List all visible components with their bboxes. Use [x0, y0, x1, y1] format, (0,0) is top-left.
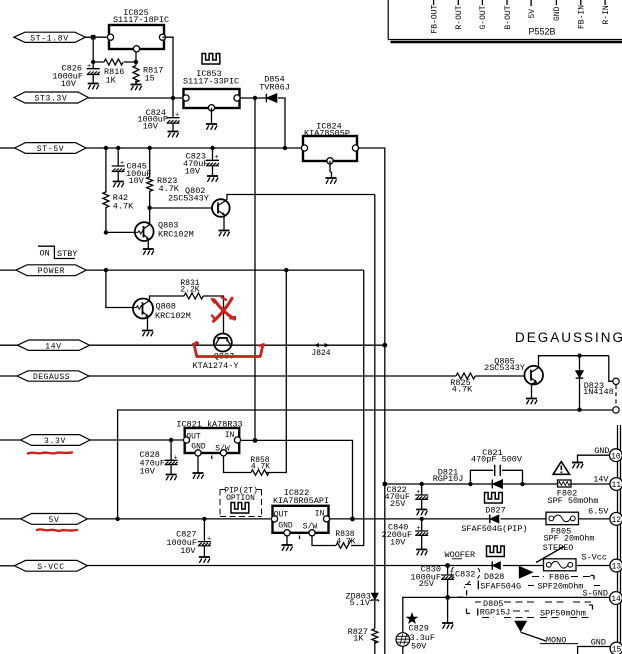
svg-text:1K: 1K: [106, 75, 117, 85]
svg-text:D828: D828: [484, 572, 504, 582]
svg-text:15: 15: [612, 646, 622, 654]
ground below C840: [416, 550, 427, 556]
svg-text:+: +: [215, 154, 219, 162]
capacitor C823: [183, 148, 219, 176]
wire vertical v4 from Q802 collector down: [374, 195, 376, 654]
wire S-VCC / WOOFER net: [87, 565, 492, 567]
connector pin 10: [610, 449, 622, 462]
svg-text:SFAF504G: SFAF504G: [480, 581, 521, 591]
connector pin 15: [610, 642, 622, 654]
svg-text:KIA78S05P: KIA78S05P: [304, 128, 350, 138]
capacitor C821 bypass branch: [470, 448, 522, 484]
svg-text:ST3.3V: ST3.3V: [34, 95, 67, 104]
svg-text:STEREO: STEREO: [543, 543, 574, 553]
ground below R817: [135, 81, 137, 85]
wire Q808 emitter to ground: [148, 317, 149, 330]
transistor Q802: [168, 186, 230, 217]
ground below C830: [447, 597, 449, 622]
wire pin15 GND: [578, 647, 611, 654]
wire D827 to F805: [501, 518, 547, 520]
heatsink symbol above IC853: [202, 54, 220, 65]
svg-text:4.7K: 4.7K: [452, 385, 473, 395]
svg-text:KRC102M: KRC102M: [155, 311, 191, 321]
svg-text:6.5V: 6.5V: [588, 507, 609, 517]
connector P552B pin B-OUT: [504, 0, 513, 30]
fuse F802: [547, 480, 598, 506]
connector P552B pin FB-IN: [578, 0, 587, 29]
svg-text:SFAF504G(PIP): SFAF504G(PIP): [461, 524, 527, 534]
svg-text:3.3V: 3.3V: [44, 437, 66, 446]
wire D854 to IC824 input riser: [278, 98, 285, 148]
capacitor C822: [385, 484, 429, 509]
wire collector to degauss pin1: [609, 356, 613, 382]
svg-text:14: 14: [611, 595, 621, 604]
wire ST-1.8V net: [85, 36, 109, 38]
svg-text:KTA1274-Y: KTA1274-Y: [193, 361, 239, 371]
wire S-GND net: [403, 597, 610, 654]
svg-text:ON: ON: [40, 249, 50, 259]
heatsink symbol above D827: [485, 493, 503, 504]
svg-text:OUT: OUT: [274, 510, 289, 519]
connector P552B box: [388, 0, 622, 42]
connector P552B pin GND: [553, 0, 562, 21]
resistor R827: [348, 627, 378, 644]
svg-text:G-OUT: G-OUT: [479, 5, 488, 29]
svg-text:5V: 5V: [48, 516, 59, 525]
annotation C832: [451, 567, 480, 597]
diode D827: [485, 506, 505, 524]
wire ST-5V net: [86, 147, 303, 149]
svg-text:S/W: S/W: [215, 444, 230, 453]
wire R825 to Q805 base: [475, 375, 525, 377]
connector P552B pin FB-OUT: [430, 0, 439, 34]
connector pin 14: [610, 592, 622, 605]
ground below IC824: [330, 161, 332, 178]
svg-text:S/W: S/W: [303, 522, 318, 531]
warning triangle: [553, 462, 569, 475]
op-amp U IC821 regulator: [176, 419, 242, 459]
wire F806 to pin13: [576, 565, 610, 567]
svg-text:10V: 10V: [185, 166, 201, 176]
capacitor C827: [166, 519, 211, 557]
svg-text:12: 12: [611, 516, 621, 525]
ground below C823: [207, 176, 218, 182]
svg-text:4.7K: 4.7K: [159, 184, 180, 194]
svg-text:P552B: P552B: [528, 27, 555, 37]
svg-text:S-Vcc: S-Vcc: [581, 553, 607, 563]
jumper J824: [311, 343, 330, 358]
svg-text:IN: IN: [225, 431, 235, 440]
svg-text:15: 15: [145, 74, 155, 84]
wire node to R816/C826: [93, 37, 136, 65]
connector P552B pin R-IN: [602, 0, 611, 25]
wire 14V secondary line (D821 net): [385, 483, 612, 485]
red annotation X over Q807 drive: [212, 297, 235, 321]
wire 3.3V net to IC821 OUT: [90, 439, 186, 441]
label ON/STBY: [38, 246, 77, 259]
ground below IC822 GND pin: [286, 536, 288, 545]
svg-text:4.7K: 4.7K: [251, 462, 270, 471]
capacitor C824: [137, 98, 179, 132]
resistor R816: [104, 59, 124, 85]
node 14V flag: [0, 340, 90, 351]
degauss connector dashed body: [615, 385, 617, 406]
svg-text:25V: 25V: [419, 579, 435, 589]
svg-text:DEGAUSS: DEGAUSS: [33, 373, 70, 382]
ground below C827: [199, 557, 210, 563]
svg-text:TVR06J: TVR06J: [259, 82, 290, 92]
transistor Q803: [135, 221, 194, 241]
svg-text:GND: GND: [278, 522, 293, 531]
wire 14V net: [90, 344, 385, 346]
svg-text:13: 13: [611, 563, 621, 572]
svg-text:10V: 10V: [390, 538, 406, 548]
svg-text:14V: 14V: [45, 342, 62, 351]
degauss connector pin top: [613, 378, 619, 384]
svg-text:470pF 500V: 470pF 500V: [471, 455, 523, 465]
svg-text:+: +: [417, 489, 421, 497]
node 3.3V flag: [0, 435, 90, 447]
svg-text:2SC5343Y: 2SC5343Y: [484, 363, 525, 373]
svg-text:R-OUT: R-OUT: [455, 5, 464, 29]
ground below C824: [168, 132, 179, 138]
resistor R817: [133, 66, 163, 84]
wire R831 to Q807 base: [203, 296, 223, 334]
svg-text:D827: D827: [485, 506, 505, 516]
node 5V flag: [0, 514, 87, 526]
wire 5V net: [87, 518, 275, 520]
svg-text:S1117-18PIC: S1117-18PIC: [113, 15, 169, 25]
svg-text:J824: J824: [311, 349, 330, 358]
ground below C845: [113, 182, 124, 188]
svg-text:IC821 kA78R33: IC821 kA78R33: [176, 419, 242, 429]
connector P552B pin 5V: [528, 0, 537, 19]
svg-text:1N4148: 1N4148: [583, 387, 614, 397]
wire vertical v1 D854 to IC821 IN: [254, 98, 256, 440]
svg-text:+: +: [120, 160, 124, 168]
svg-text:C832: C832: [455, 570, 475, 580]
wire Q802 base: [150, 207, 213, 209]
svg-text:GND: GND: [191, 443, 206, 452]
svg-text:10V: 10V: [143, 122, 159, 132]
degauss connector pin bottom: [613, 407, 619, 413]
svg-text:25V: 25V: [390, 499, 406, 509]
ground below C822: [416, 510, 427, 516]
svg-text:POWER: POWER: [38, 267, 66, 276]
ground below IC821 GND pin: [197, 456, 199, 473]
svg-text:+: +: [175, 112, 179, 120]
resistor R42: [103, 148, 134, 232]
svg-text:11: 11: [611, 481, 621, 490]
op-amp U IC822 regulator: [271, 488, 329, 539]
svg-text:GND: GND: [594, 446, 609, 456]
svg-text:+: +: [174, 454, 178, 462]
svg-text:14V: 14V: [593, 474, 609, 484]
PIP(2T) OPTION dashed box: [220, 486, 262, 516]
svg-text:10V: 10V: [129, 176, 145, 186]
diode D821: [433, 467, 503, 488]
svg-text:10V: 10V: [61, 79, 77, 89]
wire ST3.3V net: [88, 97, 183, 99]
resistor R838: [335, 530, 355, 548]
svg-text:1K: 1K: [353, 634, 364, 644]
wire D828 to F806: [503, 565, 544, 567]
svg-text:SPF 20mOhm: SPF 20mOhm: [543, 534, 594, 544]
svg-text:OPTION: OPTION: [226, 494, 255, 503]
wire Q802 collector to vertical: [226, 195, 375, 201]
wire vertical v3 POWER to R838: [351, 270, 364, 545]
red annotation underline 5V: [37, 529, 77, 531]
wire Q805 collector: [538, 356, 609, 368]
svg-text:2SC5343Y: 2SC5343Y: [168, 194, 209, 204]
wire IC822 S/W to R838: [312, 536, 336, 546]
capacitor C845: [112, 148, 152, 186]
ground below IC853: [211, 108, 213, 124]
fuse F805: [543, 512, 594, 543]
wire IC822 IN to 5V line right: [329, 518, 490, 520]
connector P552B pin R-OUT: [455, 0, 464, 30]
svg-text:OUT: OUT: [186, 433, 201, 442]
svg-text:4.7K: 4.7K: [336, 537, 355, 546]
svg-text:4.7K: 4.7K: [113, 202, 134, 212]
svg-text:IN: IN: [315, 510, 325, 519]
wire IC825 pin3 to ST3.3V: [163, 37, 174, 98]
node ST-5V flag: [0, 143, 86, 155]
red annotation bracket under Q807: [193, 343, 264, 357]
op-amp U IC824 regulator: [301, 122, 358, 164]
wire Q802 emitter to ground: [224, 215, 225, 230]
transistor Q807: [193, 334, 239, 372]
diode D854: [259, 75, 290, 103]
transistor Q808: [133, 299, 191, 322]
svg-text:+: +: [87, 63, 91, 71]
dashed annotation D805 RGP15J SPF50mOhm: [467, 599, 593, 619]
wire Q805 emitter to ground: [532, 382, 537, 398]
wire pin10 GND: [578, 455, 611, 462]
wire Q808 collector to R831: [149, 296, 184, 301]
arrow to STEREO: [519, 543, 574, 579]
svg-text:50V: 50V: [411, 642, 427, 652]
capacitor C840: [382, 519, 429, 549]
svg-text:ST-1.8V: ST-1.8V: [30, 34, 69, 43]
svg-text:DEGAUSSING: DEGAUSSING: [515, 330, 622, 345]
svg-text:2.2K: 2.2K: [180, 285, 199, 294]
svg-text:10: 10: [611, 452, 621, 461]
wire IC821 S/W to R858: [224, 456, 252, 473]
svg-text:R-IN: R-IN: [602, 5, 611, 24]
connector P552B pin G-OUT: [479, 0, 488, 30]
svg-text:5.1V: 5.1V: [350, 598, 371, 608]
svg-text:GND: GND: [553, 6, 562, 21]
fuse F806: [544, 559, 577, 571]
resistor R858: [250, 456, 270, 475]
diode D823: [576, 356, 614, 410]
wire IC821 IN net: [240, 440, 353, 519]
wire Q803 emitter to ground: [147, 240, 150, 249]
capacitor C826: [52, 62, 99, 89]
transistor Q805: [484, 356, 543, 384]
junction dots ST-1.8V area: [91, 35, 96, 40]
op-amp U IC853 regulator: [183, 69, 240, 111]
svg-text:B-OUT: B-OUT: [504, 5, 513, 29]
svg-text:STBY: STBY: [57, 249, 77, 259]
svg-text:RGP15J: RGP15J: [480, 607, 511, 617]
wire Q803 collector: [149, 208, 151, 225]
svg-text:+: +: [417, 525, 421, 533]
svg-text:KRC102M: KRC102M: [158, 230, 194, 240]
op-amp U IC825 regulator: [107, 8, 169, 52]
node DEGAUSS flag: [0, 371, 89, 382]
wire DEGAUSS net: [89, 375, 456, 377]
ground below C828: [166, 475, 177, 481]
svg-text:10V: 10V: [140, 467, 156, 477]
svg-text:GND: GND: [591, 637, 606, 647]
wire vertical v2 POWER to R858: [266, 270, 286, 472]
dashed annotation SFAF504G: [465, 581, 601, 592]
dashed annotation F806 SPF20mOhm: [532, 573, 594, 592]
svg-text:+: +: [207, 536, 211, 544]
connector pin 13: [610, 559, 622, 572]
red annotation underline 3.3V: [28, 453, 72, 454]
svg-text:KIA78R05API: KIA78R05API: [273, 496, 329, 506]
wire GND return line y410: [118, 410, 613, 519]
svg-text:FB-IN: FB-IN: [578, 5, 587, 29]
svg-text:ST-5V: ST-5V: [37, 145, 65, 154]
svg-text:10V: 10V: [180, 546, 196, 556]
wire POWER to Q808 base: [106, 270, 133, 307]
svg-text:FB-OUT: FB-OUT: [430, 4, 439, 33]
svg-text:RGP10J: RGP10J: [433, 474, 464, 484]
svg-text:SPF 50mOhm: SPF 50mOhm: [547, 496, 598, 506]
svg-text:S-GND: S-GND: [582, 588, 608, 598]
svg-text:SPF20mOhm: SPF20mOhm: [538, 581, 584, 591]
connector pin 11: [610, 478, 622, 491]
connector bar right edge: [618, 425, 621, 654]
connector pin 12: [610, 513, 622, 526]
arrow to MONO: [514, 621, 578, 646]
resistor R823: [147, 148, 180, 208]
capacitor C828: [140, 440, 178, 477]
svg-text:S1117-33PIC: S1117-33PIC: [183, 77, 239, 87]
zener diode ZD803: [345, 591, 379, 608]
heatsink symbol above D828: [487, 546, 505, 557]
diode D828: [484, 561, 504, 582]
resistor R831: [180, 279, 203, 299]
svg-text:SPF50mOhm: SPF50mOhm: [540, 608, 586, 618]
capacitor C829: [396, 614, 435, 652]
ground below C826: [88, 84, 99, 90]
node S-VCC flag: [0, 560, 87, 572]
svg-text:5V: 5V: [528, 9, 537, 19]
wire Q803 base: [106, 231, 135, 233]
wire IC824 output to 14V vertical: [358, 148, 385, 654]
wire IC853 pin3 to D854: [240, 97, 267, 99]
node ST3.3V flag: [14, 92, 88, 104]
svg-text:Q808: Q808: [156, 301, 176, 311]
svg-text:S-VCC: S-VCC: [37, 563, 65, 572]
capacitor C830: [410, 565, 454, 598]
wire F805 to pin12: [579, 518, 611, 520]
resistor R825: [450, 373, 475, 395]
node ST-1.8V flag: [14, 32, 86, 43]
wire POWER net: [86, 269, 363, 271]
node POWER flag: [0, 265, 86, 276]
